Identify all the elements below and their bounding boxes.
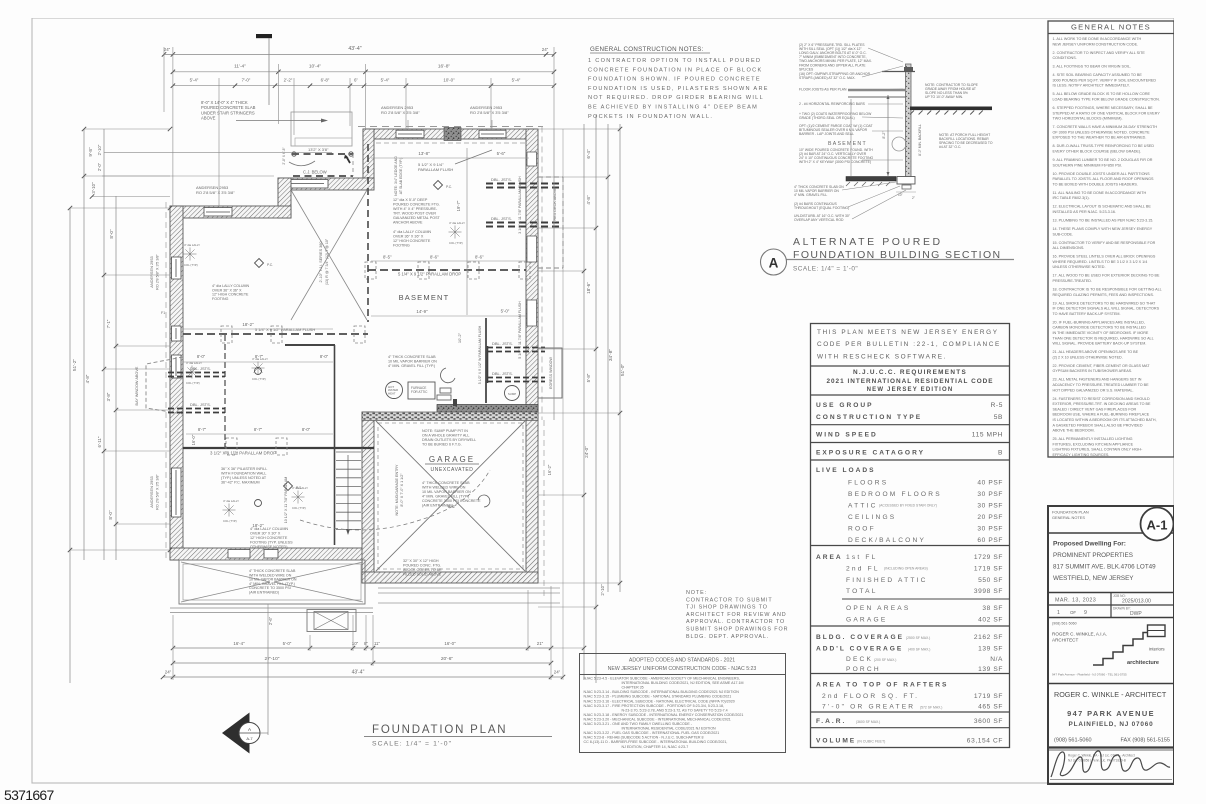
svg-text:8. DUR-O-WALL TRUSS-TYPE REIN: 8. DUR-O-WALL TRUSS-TYPE REINFORCING TO … [1053, 144, 1155, 148]
svg-text:JOB NO:: JOB NO: [1113, 594, 1126, 598]
energy code table [811, 324, 1010, 748]
svg-text:6'-11": 6'-11" [97, 436, 102, 447]
svg-text:TWO HORIZONTAL BLOCKS (MINIMUM: TWO HORIZONTAL BLOCKS (MINIMUM). [1053, 117, 1123, 121]
left horizontal tick lines [84, 128, 170, 130]
svg-text:3000 POUNDS PER SQ.FT. VERIFY: 3000 POUNDS PER SQ.FT. VERIFY IF SOIL EN… [1053, 78, 1157, 82]
svg-text:4" MIN. GRAVEL FILL (TYP.): 4" MIN. GRAVEL FILL (TYP.) [388, 364, 435, 368]
svg-text:ARCHITECT FOR REVIEW AND: ARCHITECT FOR REVIEW AND [686, 612, 787, 618]
svg-text:60 PSF: 60 PSF [977, 537, 1003, 544]
svg-text:13. PLUMBING TO BE INSTALLED: 13. PLUMBING TO BE INSTALLED AS PER NJAC… [1053, 219, 1154, 223]
svg-text:2'-0": 2'-0" [97, 162, 102, 171]
logo stair-step [1093, 633, 1148, 666]
X-brace: garage slab [376, 421, 525, 571]
utility curl arrow [441, 368, 455, 383]
svg-text:R-5: R-5 [991, 402, 1003, 409]
svg-text:ATTIC: ATTIC [848, 503, 878, 510]
svg-text:RO 2'8 5/8" X 3'5 3/8": RO 2'8 5/8" X 3'5 3/8" [156, 254, 160, 290]
svg-text:4'-8": 4'-8" [586, 195, 591, 205]
svg-text:30 PSF: 30 PSF [977, 526, 1003, 533]
svg-text:ANDERSEN 2953: ANDERSEN 2953 [149, 256, 154, 287]
title block [1048, 506, 1174, 784]
svg-text:COL (TYP): COL (TYP) [292, 506, 306, 510]
svg-text:21. ALL HEADERS ABOVE OPENING: 21. ALL HEADERS ABOVE OPENINGS ARE TO BE [1053, 350, 1139, 354]
svg-text:LIGHTING FIXTURES, SHALL CONTA: LIGHTING FIXTURES, SHALL CONTAIN ONLY HI… [1053, 448, 1144, 452]
svg-text:8'-7": 8'-7" [198, 427, 207, 432]
svg-text:(13) R @ 7 3/4" (12) T @ 10": (13) R @ 7 3/4" (12) T @ 10" [325, 238, 329, 285]
svg-text:8'-5": 8'-5" [383, 255, 392, 260]
top extension verticals [163, 47, 165, 112]
landing strip dashed line [376, 142, 526, 144]
svg-text:30 PSF: 30 PSF [977, 491, 1003, 498]
section: footing [846, 177, 896, 182]
svg-text:LOAD BEARING TYPE FOR BELOW GR: LOAD BEARING TYPE FOR BELOW GRADE CONSTR… [1053, 98, 1160, 102]
svg-text:22. PROVIDE CEMENT, FIBER-CEM: 22. PROVIDE CEMENT, FIBER-CEMENT OR GLAS… [1053, 364, 1151, 368]
svg-text:CONDITIONS.: CONDITIONS. [1053, 56, 1077, 60]
section: leader lines [868, 48, 903, 62]
svg-text:CODE PER BULLETIN :22-1, COMPL: CODE PER BULLETIN :22-1, COMPLIANCE [817, 341, 1001, 348]
svg-text:10. PROVIDE DOUBLE JOISTS UND: 10. PROVIDE DOUBLE JOISTS UNDER ALL PART… [1053, 172, 1151, 176]
svg-text:SEALED / DIRECT VENT GAS FIREP: SEALED / DIRECT VENT GAS FIREPLACES FOR [1053, 407, 1137, 411]
svg-text:EFFICACY LIGHTING SOURCES.: EFFICACY LIGHTING SOURCES. [1053, 453, 1110, 457]
entry stoop slab outline [291, 112, 352, 146]
svg-text:5'-4": 5'-4" [190, 78, 199, 83]
wall: stair bump left wall [363, 129, 374, 187]
svg-text:ADD'L COVERAGE: ADD'L COVERAGE [816, 646, 903, 653]
svg-text:38 SF: 38 SF [982, 605, 1003, 612]
svg-text:COL (TYP): COL (TYP) [449, 241, 463, 245]
girder: lower parallam drop (solid) [183, 447, 374, 449]
wall: right outer wall [526, 129, 538, 412]
svg-text:GENERAL NOTES: GENERAL NOTES [1052, 515, 1085, 520]
footing dashed outline top [358, 126, 543, 128]
svg-text:NOTE: MUD/GARAGE ENTRY: NOTE: MUD/GARAGE ENTRY [395, 464, 399, 515]
svg-text:COL (TYP): COL (TYP) [252, 377, 266, 381]
interior dashed partition x225 [224, 335, 226, 448]
svg-text:ROOF: ROOF [848, 526, 876, 533]
svg-text:REQUIRED GLAZING PERMITS, FEES: REQUIRED GLAZING PERMITS, FEES AND INSPE… [1053, 293, 1154, 297]
svg-text:10'-0": 10'-0" [443, 78, 455, 83]
svg-text:NJAC 5:23-3.20 - MECHANICAL S: NJAC 5:23-3.20 - MECHANICAL SUBCODE - IN… [584, 717, 731, 721]
svg-text:43'-4": 43'-4" [348, 46, 361, 52]
svg-text:16'-8": 16'-8" [438, 64, 451, 70]
svg-text:6'-8": 6'-8" [321, 78, 330, 83]
right horizontal tick lines [538, 128, 620, 130]
basement dim line y316 [371, 315, 526, 317]
svg-text:4" dia LALLY: 4" dia LALLY [292, 486, 308, 490]
svg-text:BE ACHIEVED BY INSTALLING 4" D: BE ACHIEVED BY INSTALLING 4" DEEP BEAM [588, 105, 758, 111]
svg-text:BLDG. COVERAGE: BLDG. COVERAGE [816, 634, 904, 641]
svg-text:IN THE IMMEDIATE VICINITY OF B: IN THE IMMEDIATE VICINITY OF BEDROOMS. I… [1053, 331, 1149, 335]
svg-text:TO HAVE BATTERY BACK-UP SYSTEM: TO HAVE BATTERY BACK-UP SYSTEM. [1053, 312, 1121, 316]
svg-text:19. ALL SMOKE DETECTORS TO BE: 19. ALL SMOKE DETECTORS TO BE HARDWIRED … [1053, 301, 1157, 305]
svg-text:5 1/4" X 9 1/2" PARALLAM FLUSH: 5 1/4" X 9 1/2" PARALLAM FLUSH [255, 327, 315, 332]
svg-text:3'-8": 3'-8" [106, 392, 111, 401]
svg-text:OF 3000 PSI UNLESS OTHERWISE N: OF 3000 PSI UNLESS OTHERWISE NOTED. CONC… [1053, 130, 1151, 134]
svg-text:DECK/BALCONY: DECK/BALCONY [848, 537, 926, 544]
svg-text:EXPOSURE CATAGORY: EXPOSURE CATAGORY [816, 450, 925, 457]
svg-text:1. ALL WORK TO BE DONE IN ACC: 1. ALL WORK TO BE DONE IN ACCORDANCE WIT… [1053, 37, 1142, 41]
svg-text:10'-2": 10'-2" [457, 332, 462, 343]
svg-text:THIS PLAN MEETS NEW JERSEY ENE: THIS PLAN MEETS NEW JERSEY ENERGY [817, 329, 999, 336]
svg-text:8'-0" X 7'-0" X 1 1/2": 8'-0" X 7'-0" X 1 1/2" [400, 473, 404, 507]
window in left wall (bay) [172, 355, 182, 378]
svg-text:7'-0" OR GREATER: 7'-0" OR GREATER [822, 704, 915, 711]
dashed utility arc [300, 470, 490, 530]
signature [1051, 751, 1170, 777]
window in top wall (right) [479, 130, 506, 138]
svg-text:3998 SF: 3998 SF [974, 588, 1003, 595]
svg-text:4. SITE SOIL BEARING CAPACITY: 4. SITE SOIL BEARING CAPACITY ASSUMED TO… [1053, 73, 1143, 77]
svg-text:UP TO 10'-0" AWAY MIN.: UP TO 10'-0" AWAY MIN. [925, 95, 963, 99]
svg-text:GENERAL CONSTRUCTION NOTES:: GENERAL CONSTRUCTION NOTES: [590, 46, 704, 53]
window well connector [487, 346, 489, 383]
porch outline [179, 560, 365, 604]
svg-text:3. ALL FOOTINGS TO BEAR ON VI: 3. ALL FOOTINGS TO BEAR ON VIRGIN SOIL. [1053, 65, 1131, 69]
alternate poured foundation building section [761, 43, 1015, 275]
svg-text:11. ALL NAILING TO BE DONE IN: 11. ALL NAILING TO BE DONE IN ACCORDANCE… [1053, 191, 1147, 195]
svg-text:4" dia LALLY: 4" dia LALLY [223, 499, 239, 503]
svg-text:5'-4": 5'-4" [381, 78, 390, 83]
svg-text:18'-6": 18'-6" [586, 282, 591, 294]
svg-text:ROGER C. WINKLE - ARCHITEC: ROGER C. WINKLE - ARCHITECT [1054, 690, 1167, 699]
svg-text:16'-2": 16'-2" [547, 464, 552, 475]
window in top wall (left) [396, 130, 424, 138]
svg-text:NJAC 5:23-3.15 - PLUMBING SUB: NJAC 5:23-3.15 - PLUMBING SUBCODE - NATI… [584, 695, 732, 699]
svg-text:HEAT: HEAT [388, 391, 396, 395]
svg-text:AT SLAB EDGE (TYP.): AT SLAB EDGE (TYP.) [399, 158, 403, 195]
match-line black marker [256, 34, 272, 38]
svg-text:DBL. JSTS.: DBL. JSTS. [491, 216, 512, 221]
svg-text:(2) 2 X 10 UNLESS OTHERWISE NO: (2) 2 X 10 UNLESS OTHERWISE NOTED. [1053, 355, 1123, 359]
thin partition line [466, 148, 468, 315]
svg-text:EGRESS WINDOW: EGRESS WINDOW [549, 357, 553, 389]
footing dashed outline right [541, 127, 543, 421]
svg-text:7. CONCRETE WALLS HAVE A MINI: 7. CONCRETE WALLS HAVE A MINIMUM 28-DAY … [1053, 125, 1158, 129]
svg-text:10": 10" [898, 193, 903, 197]
boiler room fixtures [386, 382, 403, 399]
svg-text:NJAC 5:23-8 - REHAB (SUB)C: NJAC 5:23-8 - REHAB (SUB)CODE 5 ACTION -… [584, 736, 704, 740]
svg-text:ARCHITECT: ARCHITECT [1052, 638, 1078, 643]
window in left wall (upper) [172, 257, 182, 279]
svg-text:8'-7": 8'-7" [254, 427, 263, 432]
section: sill detail [904, 67, 913, 71]
right vertical dim lines [553, 129, 555, 420]
bottom extension verticals [172, 615, 174, 680]
svg-text:BEDROOM USE, WHERE A FUEL-BURN: BEDROOM USE, WHERE A FUEL-BURNING FIREPL… [1053, 413, 1150, 417]
entry stair dashed lines [292, 153, 353, 155]
svg-text:ROGER C. WINKLE, A.I.A.: ROGER C. WINKLE, A.I.A. [1052, 632, 1107, 637]
dbl joists crossing right wall [486, 183, 561, 185]
section cut marker (compass) [222, 713, 250, 754]
svg-text:12. ELECTRICAL LAYOUT IS SCHE: 12. ELECTRICAL LAYOUT IS SCHEMATIC AND S… [1053, 205, 1152, 209]
svg-text:(200 SF MAX.): (200 SF MAX.) [874, 658, 896, 662]
svg-text:8'-0": 8'-0" [302, 427, 311, 432]
bottom dim line 1 [173, 647, 551, 649]
svg-text:FLOORS: FLOORS [848, 480, 888, 487]
svg-text:FOOTING: FOOTING [212, 297, 229, 301]
svg-text:STRAPS (ANDED) AT 32" O.C. MAX: STRAPS (ANDED) AT 32" O.C. MAX. [799, 76, 856, 80]
svg-text:5'-6": 5'-6" [497, 151, 506, 156]
left vertical dim lines [69, 208, 71, 683]
svg-text:11'-4": 11'-4" [234, 64, 246, 70]
svg-text:5371667: 5371667 [4, 787, 55, 803]
svg-text:DECK: DECK [846, 656, 873, 663]
svg-text:2162 SF: 2162 SF [974, 634, 1003, 641]
svg-text:27'-10": 27'-10" [265, 656, 280, 662]
svg-text:16'-0": 16'-0" [444, 641, 456, 646]
svg-text:2021 INTERNATIONAL RESIDENTIAL: 2021 INTERNATIONAL RESIDENTIAL CODE [826, 378, 993, 385]
svg-text:NJ EDITION, CHAPTER 14, NJAC 4: NJ EDITION, CHAPTER 14, NJAC 4:23-7 [622, 745, 689, 749]
girder: basement parallam drop (dashed) [368, 269, 526, 271]
garage bottom wall [362, 572, 538, 583]
svg-text:CONSTRUCTION TYPE: CONSTRUCTION TYPE [816, 414, 922, 421]
bottom dim line 3 [163, 676, 563, 678]
svg-text:24'-0": 24'-0" [584, 446, 589, 458]
svg-text:6'-4": 6'-4" [586, 149, 591, 159]
svg-text:OPEN AREAS: OPEN AREAS [846, 605, 911, 612]
svg-text:WHERE REQUIRED. LINTELS TO BE: WHERE REQUIRED. LINTELS TO BE 3 1/2 X 3 … [1053, 260, 1148, 264]
svg-text:1719 SF: 1719 SF [974, 566, 1003, 573]
svg-text:INTERNATIONAL RESIDENTIAL CODE: INTERNATIONAL RESIDENTIAL CODE/2021 NJ E… [622, 727, 717, 731]
svg-text:5'-8": 5'-8" [586, 373, 591, 382]
garage curved arrow [478, 495, 490, 507]
svg-text:PROMINENT PROPERTIES: PROMINENT PROPERTIES [1053, 552, 1133, 559]
svg-text:BLOCK CORES TO BE: BLOCK CORES TO BE [403, 568, 442, 572]
svg-text:PLAINFIELD, NJ 07060: PLAINFIELD, NJ 07060 [1069, 721, 1154, 728]
svg-text:25. ALL PERMANENTLY INSTALLED: 25. ALL PERMANENTLY INSTALLED LIGHTING [1053, 437, 1133, 441]
svg-text:FINISHED ATTIC: FINISHED ATTIC [846, 577, 928, 584]
svg-text:8'-7": 8'-7" [255, 354, 264, 359]
svg-text:WITH 2" X 4" KEYWAY (3000 PSI: WITH 2" X 4" KEYWAY (3000 PSI CONCRETE) [799, 160, 871, 164]
svg-text:23. ALL METAL FASTENERS AND H: 23. ALL METAL FASTENERS AND HANGERS SET … [1053, 378, 1142, 382]
svg-text:EVERY OTHER BLOCK COURSE (BELO: EVERY OTHER BLOCK COURSE (BELOW GRADE). [1053, 150, 1142, 154]
svg-text:12" HIGH CONCRETE: 12" HIGH CONCRETE [250, 536, 288, 540]
svg-text:115 MPH: 115 MPH [972, 432, 1003, 439]
svg-text:DRAIN OUTLETS BY DRYWELL: DRAIN OUTLETS BY DRYWELL [422, 438, 476, 442]
svg-text:C.J. BELOW: C.J. BELOW [303, 170, 327, 175]
svg-text:ON A WHOLE GRAVITY ALL: ON A WHOLE GRAVITY ALL [422, 434, 469, 438]
left room dim line y329 [183, 328, 333, 330]
svg-text:6": 6" [354, 78, 358, 83]
svg-text:817 SUMMIT AVE. BLK.4706 LOT49: 817 SUMMIT AVE. BLK.4706 LOT49 [1053, 564, 1156, 571]
svg-text:TO BE BURIED 6 F.T.G.: TO BE BURIED 6 F.T.G. [422, 443, 462, 447]
svg-text:2'-10": 2'-10" [600, 584, 605, 596]
svg-text:DBL. JSTS.: DBL. JSTS. [492, 341, 513, 346]
svg-text:15. CONTRACTOR TO VERIFY AND: 15. CONTRACTOR TO VERIFY AND BE RESPONSI… [1053, 241, 1156, 245]
svg-text:NOTE:: NOTE: [686, 590, 707, 596]
svg-text:Proposed Dwelling For:: Proposed Dwelling For: [1053, 541, 1126, 548]
svg-text:APPROVAL. CONTRACTOR TO: APPROVAL. CONTRACTOR TO [686, 619, 785, 625]
svg-text:WITH 4" X 4" PRESSURE-: WITH 4" X 4" PRESSURE- [393, 207, 438, 211]
svg-text:INTERNATIONAL BUILDING CODE/20: INTERNATIONAL BUILDING CODE/2021, NJ EDI… [622, 681, 744, 685]
window in bottom-left wall [228, 550, 250, 559]
adopted codes and standards box [580, 654, 786, 753]
garage left wall [362, 412, 374, 583]
svg-text:51'-2": 51'-2" [72, 359, 78, 372]
svg-text:P.C.: P.C. [267, 263, 273, 267]
svg-text:(3600 SF MAX.): (3600 SF MAX.) [856, 720, 880, 724]
svg-text:2 - #4 HORIZONTAL REINFORCING: 2 - #4 HORIZONTAL REINFORCING BARS [799, 102, 866, 106]
svg-text:OVER 36" X 36" X: OVER 36" X 36" X [393, 234, 424, 238]
svg-text:18. CONTRACTOR IS TO BE RESPO: 18. CONTRACTOR IS TO BE RESPONSIBLE FOR … [1053, 288, 1162, 292]
upper-left connector dims [104, 152, 332, 154]
svg-text:63,154 CF: 63,154 CF [967, 738, 1003, 745]
svg-text:NOT REQUIRED. DROP GIRDER BEAR: NOT REQUIRED. DROP GIRDER BEARING WILL [588, 95, 764, 101]
svg-text:10 MIL VAPOR BARRIER ON: 10 MIL VAPOR BARRIER ON [422, 490, 471, 494]
svg-text:COL (TYP): COL (TYP) [186, 381, 200, 385]
wall: left outer wall E [170, 206, 183, 560]
basement/garage divider block band [362, 412, 538, 421]
dbl joists left wall upper [168, 372, 225, 374]
svg-text:DBL. JSTS.: DBL. JSTS. [190, 366, 211, 371]
svg-text:8'-0": 8'-0" [320, 354, 329, 359]
svg-text:40 PSF: 40 PSF [977, 480, 1003, 487]
svg-text:FIXTURES, EXCLUDING KITCHEN AP: FIXTURES, EXCLUDING KITCHEN APPLIANCE [1053, 442, 1134, 446]
svg-text:16. PROVIDE STEEL LINTELS OVE: 16. PROVIDE STEEL LINTELS OVER ALL BRICK… [1053, 255, 1156, 259]
svg-text:2nd FLOOR SQ. FT.: 2nd FLOOR SQ. FT. [822, 693, 919, 700]
svg-text:8'-0": 8'-0" [197, 354, 206, 359]
egress areaway [538, 348, 562, 398]
svg-text:20 PSF: 20 PSF [977, 514, 1003, 521]
svg-text:1729 SF: 1729 SF [974, 554, 1003, 561]
svg-text:CHAPTER 35: CHAPTER 35 [622, 686, 644, 690]
svg-text:19'-7": 19'-7" [456, 200, 461, 211]
svg-text:RO 2'8 5/8" X 3'5 3/8": RO 2'8 5/8" X 3'5 3/8" [381, 110, 420, 115]
foundation plan drawing [68, 34, 626, 754]
svg-text:10 1/2" X 11 7/8" PARALLAM: 10 1/2" X 11 7/8" PARALLAM [284, 477, 288, 524]
svg-text:(ACCESSED BY FIXED STAIR ONLY): (ACCESSED BY FIXED STAIR ONLY) [879, 504, 937, 508]
svg-text:4" THICK CONCRETE SLAB: 4" THICK CONCRETE SLAB [422, 481, 470, 485]
svg-text:UNEXCAVATED: UNEXCAVATED [431, 467, 474, 473]
svg-text:A: A [769, 256, 779, 271]
svg-text:24. FASTENERS TO RESIST CORRO: 24. FASTENERS TO RESIST CORROSION AND SH… [1053, 397, 1150, 401]
svg-text:16'-0": 16'-0" [191, 434, 196, 445]
svg-text:POURED CONCRETE FTG.: POURED CONCRETE FTG. [393, 202, 440, 206]
svg-text:2. CONTRACTOR TO INSPECT AND: 2. CONTRACTOR TO INSPECT AND VERIFY ALL … [1053, 51, 1146, 55]
svg-text:51'-0": 51'-0" [620, 364, 626, 377]
svg-text:TJI SHOP DRAWINGS TO: TJI SHOP DRAWINGS TO [686, 605, 768, 611]
svg-text:NJAC 5:23-3.14 - BUILDING SUB: NJAC 5:23-3.14 - BUILDING SUBCODE - INTE… [584, 690, 740, 694]
svg-text:4" dia LALLY: 4" dia LALLY [184, 243, 200, 247]
svg-text:(572 SF MAX.): (572 SF MAX.) [920, 706, 942, 710]
svg-text:17. ALL WOOD TO BE USED FOR E: 17. ALL WOOD TO BE USED FOR EXTERIOR DEC… [1053, 274, 1161, 278]
window in wall B [288, 180, 328, 189]
dark marker block on top wall [444, 128, 461, 141]
svg-text:8'-0": 8'-0" [109, 229, 114, 239]
svg-text:4'-8": 4'-8" [85, 374, 90, 383]
svg-text:5 1/4" X 11 7/8" PARALLAM FLUS: 5 1/4" X 11 7/8" PARALLAM FLUSH [518, 301, 522, 359]
svg-text:B: B [998, 450, 1003, 457]
svg-text:ALL DIMENSIONS.: ALL DIMENSIONS. [1053, 246, 1085, 250]
svg-text:FOUNDATION PLAN: FOUNDATION PLAN [1052, 510, 1089, 515]
svg-text:36"-42" P.C. MAXIMUM: 36"-42" P.C. MAXIMUM [221, 480, 260, 484]
svg-text:2'-10": 2'-10" [97, 144, 102, 155]
svg-text:DRAWN BY:: DRAWN BY: [1113, 607, 1131, 611]
svg-text:10'-4": 10'-4" [309, 64, 322, 70]
svg-text:5. ALL BELOW GRADE BLOCK IS T: 5. ALL BELOW GRADE BLOCK IS TO BE HOLLOW… [1053, 92, 1151, 96]
window in left wall (lower bay) [172, 468, 182, 517]
left room cluster marks [186, 366, 199, 379]
svg-text:24": 24" [165, 670, 172, 675]
svg-text:OVER 30" X 30" X: OVER 30" X 30" X [250, 531, 281, 535]
svg-text:IS LESS. NOTIFY ARCHITECT IMME: IS LESS. NOTIFY ARCHITECT IMMEDIATELY. [1053, 84, 1130, 88]
svg-text:6. STEPPED FOOTINGS, WHERE NE: 6. STEPPED FOOTINGS, WHERE NECESSARY, SH… [1053, 106, 1154, 110]
svg-text:TREX DECK ABOVE: TREX DECK ABOVE [553, 187, 557, 223]
svg-text:N.J.U.C.C. REQUIREMENTS: N.J.U.C.C. REQUIREMENTS [853, 369, 967, 376]
svg-text:947 Park Avenue - Plainfield: 947 Park Avenue - Plainfield - NJ 07060 … [1052, 673, 1127, 677]
svg-text:F1: F1 [161, 311, 165, 315]
svg-text:RO 2'8 5/8" X 3'5 3/8": RO 2'8 5/8" X 3'5 3/8" [196, 190, 235, 195]
svg-text:SPLICES: SPLICES [799, 67, 814, 71]
svg-text:139 SF: 139 SF [978, 666, 1003, 673]
basement stairs [334, 345, 336, 545]
svg-text:24": 24" [164, 47, 171, 52]
svg-text:2'-8" X 6'-8": 2'-8" X 6'-8" [282, 147, 286, 165]
svg-text:(2500 SF MAX.): (2500 SF MAX.) [906, 636, 930, 640]
section: wall dim arrow [887, 95, 889, 176]
svg-text:18'-2": 18'-2" [242, 322, 254, 327]
svg-text:(TYP.) UNLESS NOTED AT: (TYP.) UNLESS NOTED AT [221, 476, 267, 480]
dbl joists lower right pair 1 [487, 347, 545, 349]
svg-text:AREA TO TOP OF RAFTERS: AREA TO TOP OF RAFTERS [816, 682, 948, 689]
svg-text:POURED CONC. FTG.: POURED CONC. FTG. [403, 564, 441, 568]
svg-text:F.A.R.: F.A.R. [816, 718, 846, 725]
svg-text:OF: OF [1070, 610, 1076, 615]
svg-text:1 CONTRACTOR OPTION TO INSTAL: 1 CONTRACTOR OPTION TO INSTALL POURED [588, 58, 761, 64]
svg-text:(INCLUDING OPEN AREAS): (INCLUDING OPEN AREAS) [884, 567, 928, 571]
svg-text:2025/013.00: 2025/013.00 [1122, 599, 1151, 605]
svg-text:32" X 30" X 12" HIGH: 32" X 30" X 12" HIGH [403, 559, 439, 563]
svg-text:4" MIN. GRAVEL FILL (TYP.): 4" MIN. GRAVEL FILL (TYP.) [422, 495, 469, 499]
top dimension line 2 [173, 71, 554, 73]
deck dashed outline [562, 177, 564, 268]
svg-text:A GASKETED FIREBOX SHALL ALSO: A GASKETED FIREBOX SHALL ALSO BE PROVIDE… [1053, 423, 1143, 427]
svg-text:(908) 561-5060: (908) 561-5060 [1052, 622, 1077, 626]
svg-text:ABOVE: ABOVE [201, 116, 216, 121]
svg-text:DBL. JSTS.: DBL. JSTS. [491, 177, 512, 182]
svg-text:ANDERSEN 2953: ANDERSEN 2953 [149, 476, 154, 507]
svg-text:IRC TABLE R602.3(1).: IRC TABLE R602.3(1). [1053, 196, 1090, 200]
svg-text:(908) 561-5060: (908) 561-5060 [1054, 738, 1092, 744]
svg-text:3'-10": 3'-10" [91, 182, 96, 194]
svg-text:9: 9 [1084, 610, 1087, 616]
svg-text:30 PSF: 30 PSF [977, 503, 1003, 510]
svg-text:BARRIER - LAP JOINTS AND SEAL: BARRIER - LAP JOINTS AND SEAL [799, 132, 854, 136]
svg-text:FOUNDATION PLAN: FOUNDATION PLAN [372, 724, 507, 736]
svg-text:TOTAL: TOTAL [846, 588, 878, 595]
svg-text:24": 24" [542, 47, 549, 52]
svg-text:NJAC 5:23-3.17 - FIRE PROTECT: NJAC 5:23-3.17 - FIRE PROTECTION SUBCODE… [584, 704, 725, 708]
svg-text:TRT. WOOD POST OVER: TRT. WOOD POST OVER [393, 211, 436, 215]
svg-text:COL (TYP): COL (TYP) [223, 519, 237, 523]
sheet number circle A-1 [1141, 508, 1174, 541]
svg-text:13'2" X 3'8": 13'2" X 3'8" [308, 147, 329, 152]
svg-text:EXTERIOR, PRESSURE-TRT. IN DEC: EXTERIOR, PRESSURE-TRT. IN DECKING AREAS… [1053, 402, 1151, 406]
svg-text:FOR ATTIC: FOR ATTIC [411, 390, 428, 394]
svg-text:4" THICK CONCRETE SLAB: 4" THICK CONCRETE SLAB [388, 355, 436, 359]
svg-text:SUB-CODE.: SUB-CODE. [1053, 232, 1074, 236]
svg-text:NEW JERSEY EDITION: NEW JERSEY EDITION [867, 387, 954, 393]
svg-text:ADJACENCY TO PRESSURE-TREATED: ADJACENCY TO PRESSURE-TREATED LUMBER TO … [1053, 383, 1150, 387]
svg-text:9'-8": 9'-8" [88, 147, 93, 157]
svg-text:SOUTHERN PINE MINIMUM Fb=850 P: SOUTHERN PINE MINIMUM Fb=850 PSI. [1053, 163, 1123, 167]
svg-text:10 MIL VAPOR BARRIER ON: 10 MIL VAPOR BARRIER ON [388, 360, 437, 364]
svg-text:SUMP: SUMP [508, 392, 516, 396]
section: foundation wall [906, 64, 912, 180]
svg-text:1719 SF: 1719 SF [974, 693, 1003, 700]
svg-text:NJAC 5:23-3.16 - ELECTRICAL S: NJAC 5:23-3.16 - ELECTRICAL SUBCODE - NA… [584, 699, 735, 703]
svg-text:465 SF: 465 SF [978, 704, 1003, 711]
